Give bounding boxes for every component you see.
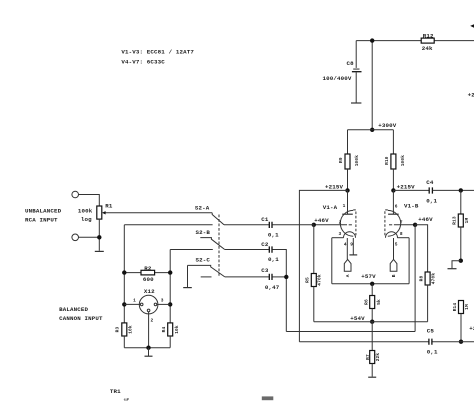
label unbalanced input (25, 208, 62, 224)
svg-text:7: 7 (400, 220, 403, 226)
wire balanced right column (169, 250, 171, 323)
svg-text:5: 5 (395, 242, 398, 248)
svg-text:100k: 100k (354, 155, 360, 167)
wire balanced left column (123, 225, 125, 323)
svg-text:3: 3 (161, 298, 164, 304)
node R2 left (122, 270, 126, 274)
resistor R5 470k (305, 225, 323, 322)
svg-text:+215V: +215V (397, 183, 416, 190)
svg-text:V4-V7: 6C33C: V4-V7: 6C33C (121, 58, 165, 65)
svg-text:R13: R13 (452, 216, 458, 225)
svg-text:R14: R14 (452, 303, 458, 312)
capacitor C8 (323, 41, 362, 103)
svg-text:0,1: 0,1 (268, 232, 279, 239)
node grid A +46V (312, 217, 330, 227)
wire +54V rail (314, 321, 428, 323)
wire C1 to grid A (272, 224, 313, 226)
svg-text:1: 1 (133, 298, 136, 304)
wire R1 bottom (98, 219, 100, 251)
svg-text:+46V: +46V (418, 216, 433, 223)
svg-text:9: 9 (350, 242, 353, 248)
svg-text:1M: 1M (464, 218, 470, 224)
svg-text:470k: 470k (316, 274, 322, 286)
svg-text:+46V: +46V (314, 217, 329, 224)
svg-text:0,1: 0,1 (268, 256, 279, 263)
svg-text:V1-V3: ECC81 / 12AT7: V1-V3: ECC81 / 12AT7 (121, 49, 194, 56)
wire C4 to R13 node (433, 189, 474, 191)
potentiometer R1 100k log (78, 203, 212, 223)
wire anode A feedback left (299, 190, 347, 341)
svg-text:1E: 1E (124, 398, 130, 401)
anode lead pin 1 (347, 190, 349, 214)
svg-text:+215V: +215V (325, 183, 344, 190)
svg-text:2: 2 (151, 317, 154, 323)
svg-text:+54V: +54V (350, 315, 365, 322)
node X12 pin1 (122, 302, 126, 306)
node cathode +57V (361, 273, 376, 286)
svg-text:8: 8 (400, 231, 403, 237)
header note (121, 49, 194, 66)
svg-text:1M: 1M (464, 304, 470, 310)
svg-text:24k: 24k (422, 45, 433, 52)
wire C1 row right (224, 224, 269, 226)
svg-text:C1: C1 (261, 216, 269, 223)
svg-text:600: 600 (143, 276, 154, 283)
rca jack top (72, 191, 79, 198)
wire top supply rail (356, 40, 474, 42)
svg-text:1: 1 (343, 203, 346, 209)
capacitor C1 (261, 216, 279, 238)
svg-text:0,47: 0,47 (265, 284, 280, 291)
node +300V (370, 122, 397, 132)
svg-text:X12: X12 (144, 288, 155, 295)
node C4/R13 (459, 188, 463, 192)
capacitor C5 (427, 327, 438, 355)
wire C5 row (299, 341, 474, 343)
ground X12 (145, 348, 153, 357)
svg-text:3: 3 (339, 231, 342, 237)
cathode return box (332, 238, 409, 284)
svg-text:R10: R10 (384, 156, 390, 165)
svg-text:5k: 5k (376, 299, 382, 305)
resistor R7 22k (365, 322, 381, 377)
svg-text:R12: R12 (423, 33, 434, 40)
ground R7 (368, 376, 376, 378)
svg-text:A: A (345, 274, 351, 277)
svg-text:R7: R7 (365, 354, 371, 360)
wire C2 to junction (272, 250, 286, 332)
switch S2-B (196, 229, 225, 250)
wire C3 to junction (272, 276, 286, 278)
resistor R2 600 (124, 265, 170, 283)
resistor R10 100k (384, 130, 406, 191)
node grid B +46V (413, 216, 433, 227)
ground stub mid divider (448, 261, 461, 269)
svg-text:CANNON INPUT: CANNON INPUT (59, 315, 103, 322)
resistor R14 1M (452, 301, 470, 342)
wire C2 row left (170, 249, 213, 251)
capacitor C3 (261, 267, 279, 291)
wire rca top to R1 (79, 195, 100, 207)
svg-text:log: log (81, 216, 92, 223)
svg-text:R9: R9 (338, 157, 344, 163)
svg-text:S2-A: S2-A (195, 205, 210, 212)
rca jack bottom (72, 234, 79, 241)
node anode A +215V (325, 183, 350, 192)
envelope B (388, 210, 401, 236)
ground S2-C (183, 265, 192, 287)
resistor R9 100k (338, 130, 360, 191)
svg-text:+2: +2 (469, 325, 474, 332)
wire pin1 (124, 303, 140, 305)
off-page arrow (470, 24, 474, 28)
svg-text:RCA INPUT: RCA INPUT (25, 216, 58, 223)
svg-text:0,1: 0,1 (426, 197, 437, 204)
resistor R13 1M (452, 190, 470, 260)
wire C1 row left (124, 224, 212, 226)
svg-text:+57V: +57V (361, 273, 376, 280)
svg-text:2: 2 (339, 220, 342, 226)
svg-text:S2-B: S2-B (196, 229, 211, 236)
transformer TR1 partial (110, 388, 273, 401)
svg-text:6: 6 (395, 203, 398, 209)
svg-text:BALANCED: BALANCED (59, 306, 88, 313)
wire +300V to anode loads (348, 129, 394, 131)
svg-text:V1-A: V1-A (323, 204, 338, 211)
svg-text:+300V: +300V (378, 122, 397, 129)
svg-text:B: B (391, 274, 397, 277)
node X12 pin3 (168, 302, 172, 306)
svg-text:R6: R6 (363, 299, 369, 305)
node C2/C3 junction (284, 275, 288, 279)
cathode A pin 3 (332, 237, 344, 239)
svg-text:R4: R4 (161, 327, 167, 333)
svg-text:S2-C: S2-C (196, 257, 211, 264)
wire balanced input to grid B (286, 331, 415, 333)
wire rca bottom (79, 236, 100, 238)
wire anode B to C4 (393, 189, 429, 191)
svg-text:+2: +2 (468, 92, 474, 99)
node top junction (370, 38, 374, 42)
wire ground bus (124, 347, 170, 349)
switch S2-A (195, 205, 224, 225)
wire C3 row right (225, 276, 269, 278)
svg-text:100k: 100k (400, 155, 406, 167)
svg-text:C4: C4 (426, 179, 434, 186)
wire C2 row right (225, 249, 269, 251)
wire pin2 (148, 312, 150, 348)
grid A pin 2 (314, 224, 347, 226)
resistor R12 (421, 33, 434, 53)
svg-text:TR1: TR1 (110, 388, 121, 395)
resistor R4 10k (161, 323, 180, 348)
triode V1-A (314, 190, 357, 259)
node ground junction (146, 346, 150, 350)
switch gang link (218, 215, 220, 278)
svg-text:22k: 22k (375, 353, 381, 362)
anode lead pin 6 (392, 190, 394, 214)
node anode B +215V (391, 183, 415, 192)
node R14/C5 (459, 340, 463, 344)
ground R1 (95, 250, 104, 252)
svg-text:C5: C5 (427, 327, 435, 334)
capacitor C2 (261, 241, 279, 263)
node R2 right (168, 270, 172, 274)
svg-text:470k: 470k (430, 273, 436, 285)
svg-text:R8: R8 (419, 276, 425, 282)
svg-text:R5: R5 (305, 277, 311, 283)
wire grid B input drop (414, 225, 416, 332)
capacitor C4 (426, 179, 437, 205)
svg-text:C3: C3 (261, 267, 269, 274)
svg-text:10k: 10k (127, 325, 133, 334)
connector B (390, 259, 397, 277)
label balanced input (59, 306, 103, 322)
svg-text:100k: 100k (78, 207, 93, 214)
xlr connector X12 (133, 288, 164, 323)
connector A (344, 259, 351, 277)
svg-text:C8: C8 (347, 60, 355, 67)
svg-text:R1: R1 (105, 203, 113, 210)
wire +300V feed drop (371, 41, 373, 130)
svg-text:10k: 10k (174, 325, 180, 334)
svg-text:0,1: 0,1 (427, 348, 438, 355)
svg-text:4: 4 (344, 242, 347, 248)
resistor R6 (363, 284, 382, 322)
svg-text:R2: R2 (144, 265, 152, 272)
node R1 bottom (97, 235, 101, 239)
wire pin3 (157, 303, 170, 305)
node +54V (350, 315, 374, 324)
node R13/R14 mid (459, 259, 463, 263)
svg-text:C2: C2 (261, 241, 269, 248)
cathode B pin 8 (397, 237, 409, 239)
svg-text:R3: R3 (114, 327, 120, 333)
resistor R8 470k (415, 225, 436, 322)
grid B pin 7 (394, 224, 415, 226)
svg-text:V1-B: V1-B (404, 203, 419, 210)
envelope A (340, 210, 353, 236)
triode V1-B (385, 190, 419, 259)
svg-text:UNBALANCED: UNBALANCED (25, 208, 62, 215)
switch S2-C (188, 257, 225, 277)
resistor R3 10k (114, 323, 133, 348)
svg-text:100/400V: 100/400V (323, 75, 352, 82)
